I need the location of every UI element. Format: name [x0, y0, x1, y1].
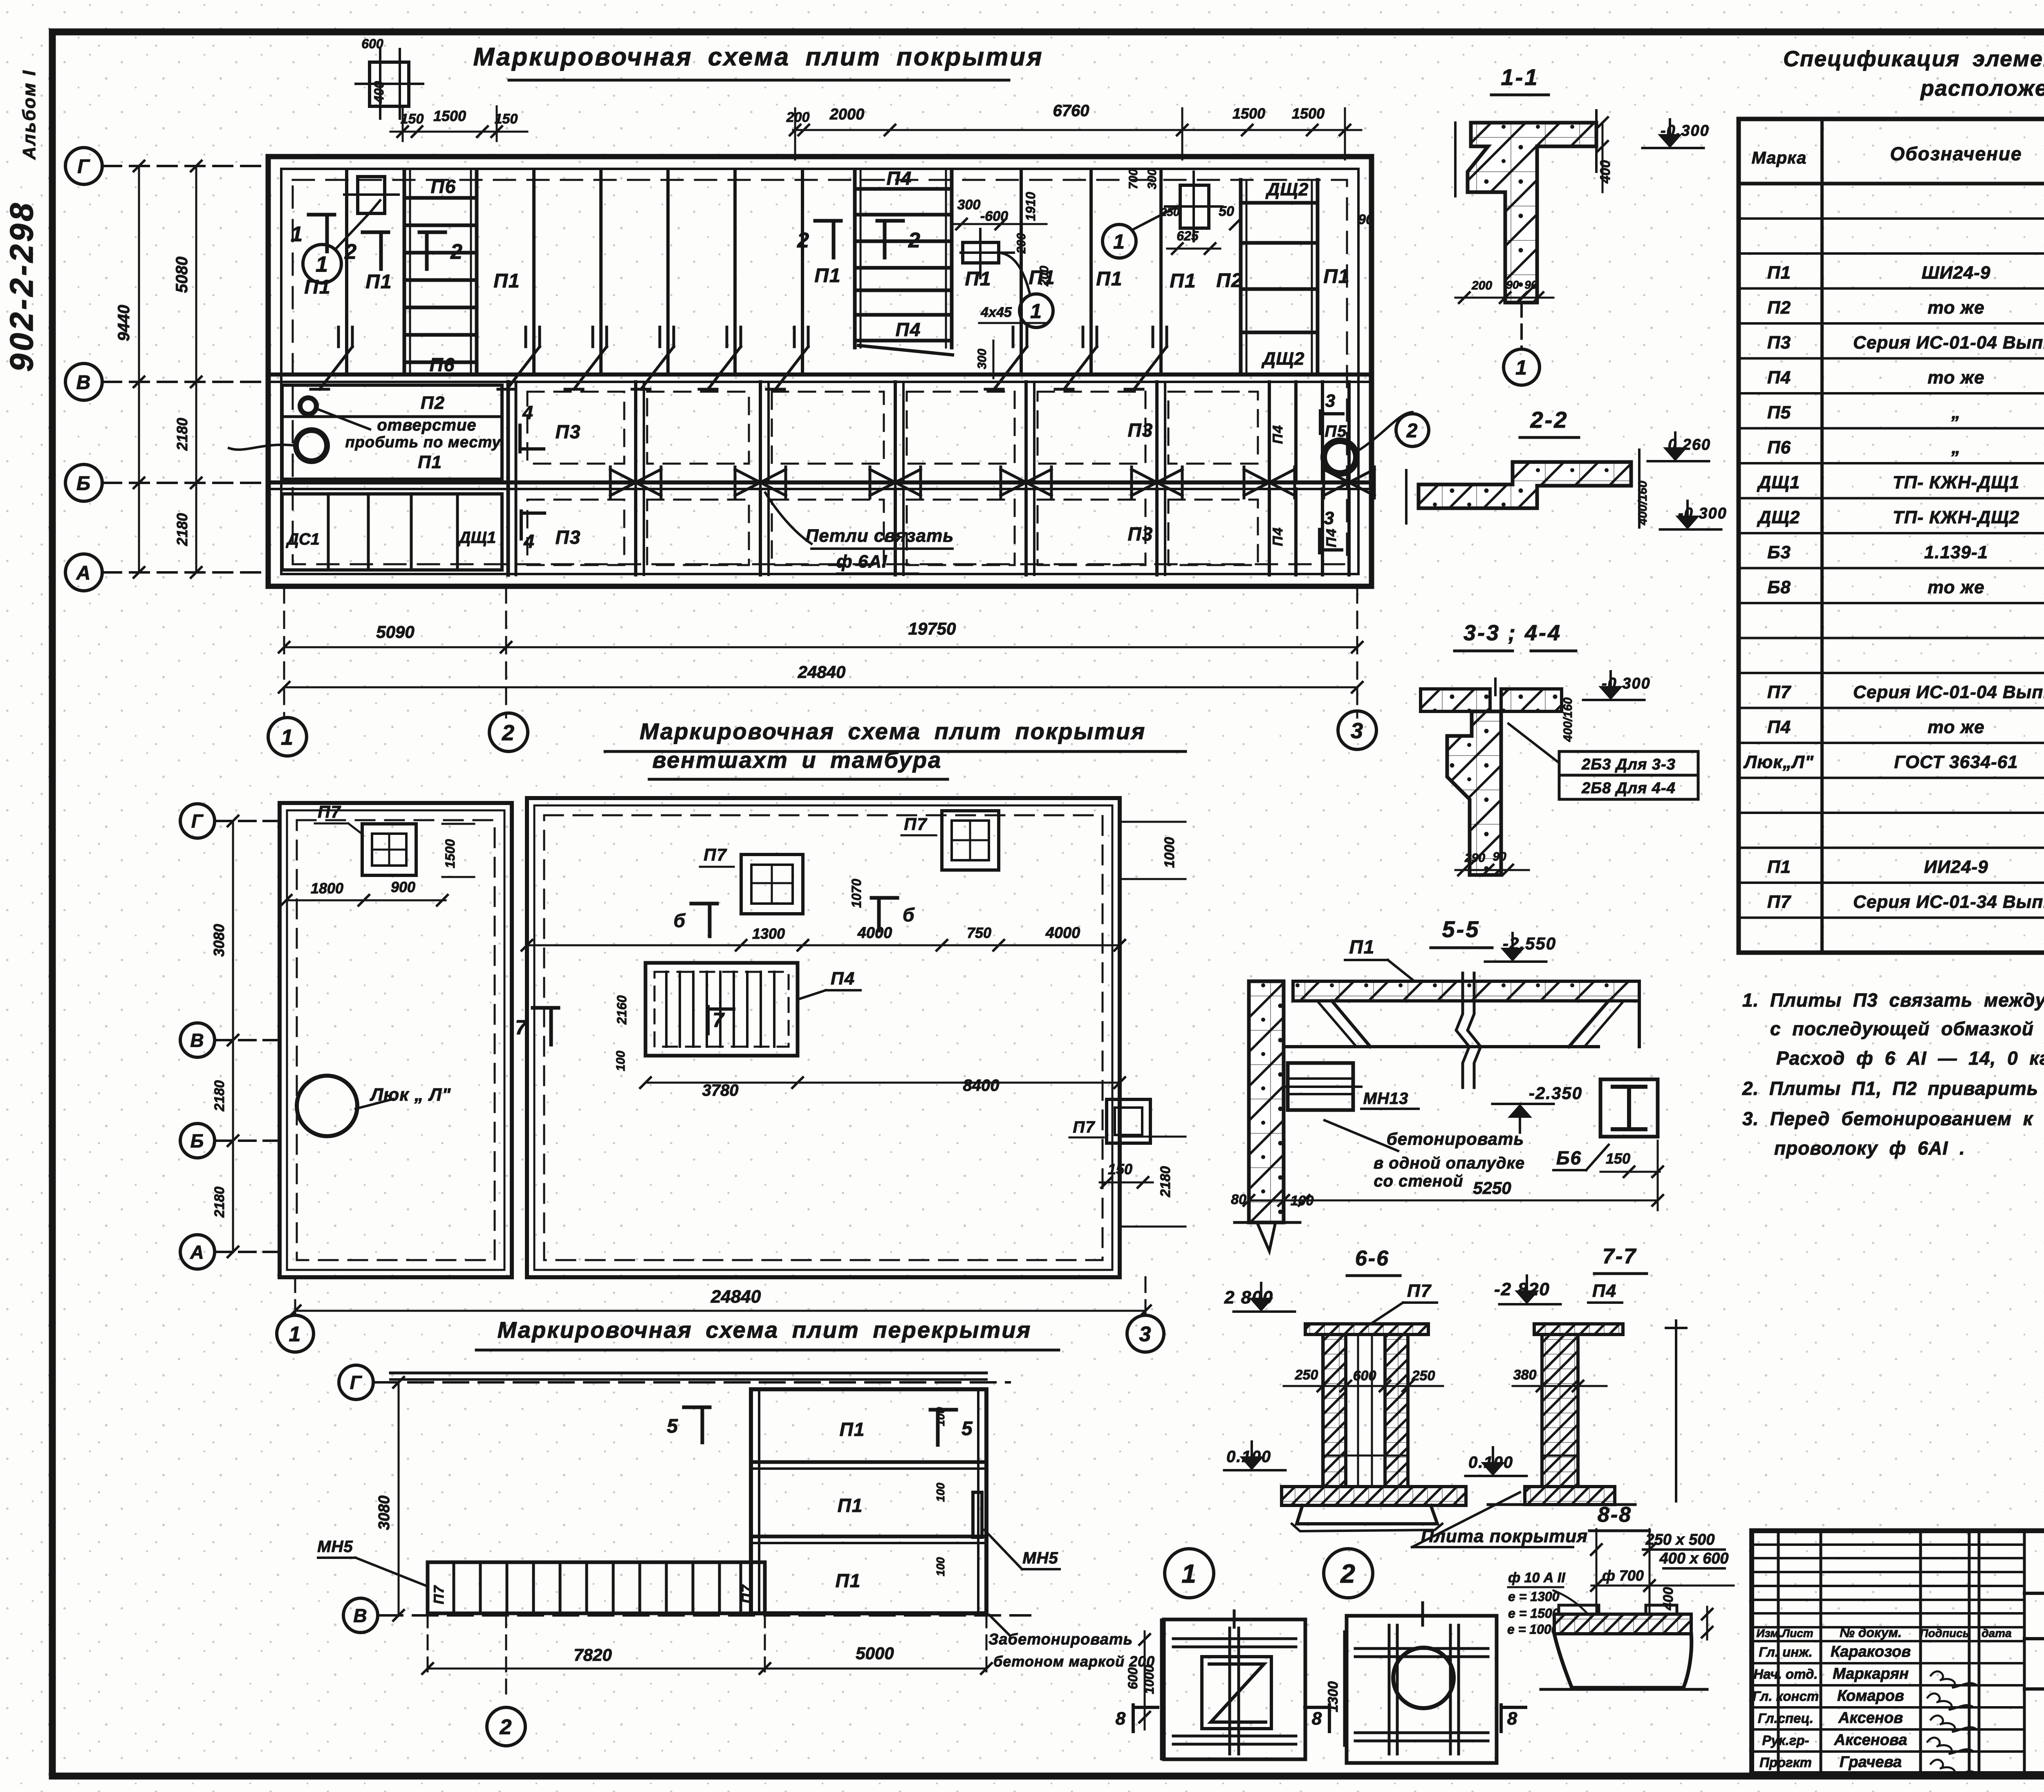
svg-text:1.139-1: 1.139-1: [1924, 543, 1988, 563]
svg-text:П1: П1: [1767, 263, 1791, 283]
svg-text:Гл. инж.: Гл. инж.: [1759, 1644, 1812, 1660]
flag b left: [708, 904, 712, 936]
bubble 2 bottom: [505, 1613, 507, 1701]
svg-text:2. Плиты П1, П2 приварить к: 2. Плиты П1, П2 приварить к закладным де…: [1742, 1078, 2044, 1099]
mid axis bubble 3: [1127, 1315, 1164, 1352]
svg-text:ДЩ2: ДЩ2: [1265, 179, 1309, 200]
title block frame: [1752, 1531, 2044, 1774]
svg-text:В: В: [190, 1030, 204, 1051]
svg-text:3-3 ; 4-4: 3-3 ; 4-4: [1464, 621, 1562, 645]
svg-text:3: 3: [1324, 508, 1335, 528]
svg-text:0.260: 0.260: [1668, 436, 1711, 453]
svg-text:1: 1: [1030, 300, 1042, 323]
svg-text:П6: П6: [431, 176, 457, 197]
svg-text:Комаров: Комаров: [1837, 1687, 1904, 1705]
svg-text:П2: П2: [1216, 270, 1243, 292]
svg-text:с последующей обмазкой цеме: с последующей обмазкой цементным раствор…: [1770, 1018, 2044, 1039]
svg-text:Г: Г: [191, 811, 204, 832]
svg-text:200: 200: [786, 110, 810, 125]
wall line row V: [268, 372, 1372, 377]
svg-text:Альбом I: Альбом I: [19, 70, 39, 160]
svg-text:2: 2: [502, 720, 515, 745]
svg-text:2: 2: [1406, 420, 1419, 442]
svg-text:ф 10 А II: ф 10 А II: [1508, 1570, 1566, 1586]
svg-text:П1: П1: [836, 1570, 861, 1591]
level -0.300: [1643, 147, 1704, 149]
dims 1800 900: [286, 899, 446, 902]
flag b right: [877, 898, 881, 931]
svg-text:250 х 500: 250 х 500: [1645, 1531, 1715, 1548]
svg-text:250: 250: [1160, 206, 1180, 218]
room DS1 bottom left: [282, 494, 502, 570]
detail 1 square: [1164, 1619, 1305, 1759]
svg-text:П1: П1: [304, 276, 331, 298]
svg-text:8400: 8400: [963, 1077, 1000, 1094]
svg-text:24840: 24840: [798, 662, 846, 682]
top band slab joints: [532, 170, 536, 375]
svg-text:250: 250: [1295, 1367, 1318, 1383]
svg-text:ИИ24-9: ИИ24-9: [1924, 857, 1988, 877]
svg-text:100: 100: [1291, 1193, 1314, 1209]
6-6 base: [1282, 1487, 1466, 1505]
P3 dashed insets middle: [527, 392, 624, 464]
svg-text:3: 3: [1325, 391, 1336, 411]
axis G bottom plan: [339, 1365, 373, 1400]
svg-text:П1: П1: [1323, 266, 1350, 287]
svg-text:4000: 4000: [1045, 924, 1080, 942]
svg-text:МН13: МН13: [1363, 1090, 1409, 1108]
svg-text:П7: П7: [1767, 682, 1792, 702]
level 0.100 b: [1466, 1475, 1527, 1477]
svg-text:П1: П1: [814, 265, 841, 287]
svg-text:Петли связать: Петли связать: [806, 526, 954, 546]
svg-text:Марка: Марка: [1752, 148, 1807, 167]
svg-text:П3: П3: [1767, 333, 1791, 353]
svg-text:ДЩ1: ДЩ1: [1757, 473, 1800, 493]
svg-text:2Б3 Для 3-3: 2Б3 Для 3-3: [1581, 756, 1676, 773]
svg-text:0.100: 0.100: [1226, 1448, 1271, 1466]
level 2800: [1234, 1310, 1295, 1313]
svg-text:П1: П1: [965, 268, 991, 290]
svg-text:600: 600: [1125, 1667, 1140, 1689]
anchor box top-left: [370, 62, 409, 106]
bottom dims: [427, 1613, 429, 1676]
detail bubble 2 big: [1324, 1549, 1373, 1598]
svg-text:ТП- КЖН-ДЩ2: ТП- КЖН-ДЩ2: [1893, 507, 2019, 527]
axis row B: [65, 464, 102, 501]
bubble 2 right: [1396, 414, 1429, 446]
svg-text:5-5: 5-5: [1442, 916, 1480, 942]
svg-text:3780: 3780: [702, 1081, 739, 1099]
svg-text:е = 1500: е = 1500: [1508, 1606, 1560, 1621]
level -2820: [1499, 1303, 1561, 1305]
svg-text:П3: П3: [1128, 523, 1154, 545]
svg-text:150: 150: [495, 111, 518, 127]
slab P4 ladder: [853, 170, 857, 348]
section 1-1 body: [1468, 123, 1596, 303]
MN5 plate: [973, 1492, 982, 1537]
svg-text:4000: 4000: [857, 924, 892, 942]
6-6 dims: [1284, 1385, 1443, 1387]
svg-text:150: 150: [1108, 1161, 1132, 1177]
svg-text:П4: П4: [1767, 368, 1791, 388]
svg-text:1: 1: [1113, 230, 1125, 253]
svg-text:В: В: [353, 1605, 368, 1626]
level 0.260: [1648, 460, 1709, 462]
anchor box in band: [358, 177, 385, 213]
svg-text:1-1: 1-1: [1501, 64, 1539, 90]
svg-text:80: 80: [1231, 1192, 1246, 1207]
svg-text:Грачева: Грачева: [1840, 1754, 1902, 1771]
svg-text:Аксенов: Аксенов: [1838, 1709, 1903, 1727]
title block small rows: [1752, 1543, 2024, 1546]
svg-text:300: 300: [975, 349, 989, 369]
svg-text:5250: 5250: [1473, 1178, 1511, 1198]
title block verticals left part: [1777, 1531, 1780, 1774]
svg-text:Б: Б: [191, 1130, 205, 1152]
svg-text:В: В: [76, 372, 92, 393]
svg-text:ф 700: ф 700: [1602, 1567, 1644, 1584]
section 2-2 body: [1419, 462, 1631, 508]
P7 shaft A: [741, 855, 803, 914]
6-6 top slab: [1305, 1324, 1428, 1334]
7-7 column: [1542, 1334, 1578, 1487]
svg-text:4: 4: [523, 531, 535, 552]
MN13 anchor: [1288, 1063, 1353, 1110]
svg-text:1: 1: [1515, 356, 1528, 379]
vertical dim chains left: [138, 166, 140, 572]
room P2/P1 left: [282, 385, 502, 479]
svg-text:со стеной: со стеной: [1374, 1172, 1463, 1190]
svg-text:Серия ИС-01-04 Вып.2: Серия ИС-01-04 Вып.2: [1853, 682, 2044, 702]
svg-text:3: 3: [1139, 1323, 1152, 1346]
svg-text:П7: П7: [1767, 892, 1792, 912]
mid plan axis bubbles: [180, 804, 215, 838]
svg-text:Каракозов: Каракозов: [1831, 1643, 1911, 1660]
svg-text:Маркировочная схема плит пе: Маркировочная схема плит перекрытия: [498, 1317, 1032, 1343]
svg-text:1: 1: [291, 222, 303, 246]
section mark 1: [325, 215, 329, 251]
svg-text:„: „: [1951, 403, 1961, 423]
mid dims line2: [645, 1082, 1120, 1084]
svg-text:1500: 1500: [433, 108, 466, 124]
svg-text:5: 5: [961, 1418, 973, 1440]
svg-text:2180: 2180: [174, 513, 191, 546]
svg-text:250: 250: [1412, 1368, 1435, 1384]
I-beam: [1600, 1079, 1658, 1137]
svg-text:Спецификация элементов к ма: Спецификация элементов к маркировочным с…: [1783, 47, 2044, 71]
title block name rows: [1752, 1640, 2024, 1642]
svg-text:П2: П2: [1767, 298, 1791, 318]
svg-text:П7: П7: [431, 1585, 447, 1604]
svg-text:МН5: МН5: [317, 1538, 353, 1556]
svg-text:380: 380: [1513, 1367, 1537, 1383]
svg-text:100: 100: [934, 1557, 947, 1576]
svg-text:8: 8: [1312, 1709, 1322, 1729]
axis bubble 1 for section: [1520, 303, 1523, 348]
svg-text:5090: 5090: [376, 622, 414, 641]
svg-text:П3: П3: [1128, 419, 1154, 441]
P4 ribbed slab: [645, 963, 798, 1056]
svg-text:50: 50: [1219, 204, 1234, 219]
svg-text:е = 1300: е = 1300: [1508, 1589, 1560, 1604]
svg-text:Рук.гр-: Рук.гр-: [1762, 1733, 1809, 1748]
svg-text:-2 820: -2 820: [1494, 1279, 1550, 1299]
svg-text:400: 400: [372, 81, 386, 103]
hole big: [296, 430, 327, 461]
svg-text:1300: 1300: [1325, 1681, 1341, 1712]
table grid: [1739, 119, 2044, 953]
svg-text:2: 2: [797, 229, 810, 252]
svg-text:е = 1000: е = 1000: [1507, 1622, 1559, 1637]
svg-text:П4: П4: [1270, 424, 1286, 444]
svg-text:300: 300: [1145, 169, 1159, 189]
svg-text:ДЩ2: ДЩ2: [1757, 507, 1800, 527]
svg-text:6760: 6760: [1053, 102, 1089, 120]
svg-text:П1: П1: [840, 1419, 865, 1440]
svg-text:200: 200: [1471, 279, 1492, 292]
slab DSh2 ladder: [1239, 180, 1243, 375]
svg-text:П7: П7: [904, 814, 928, 834]
svg-text:П1: П1: [1170, 270, 1196, 292]
svg-text:Аксенова: Аксенова: [1834, 1731, 1907, 1749]
svg-text:200: 200: [1015, 233, 1028, 254]
svg-text:П1: П1: [1349, 936, 1375, 958]
svg-text:П3: П3: [556, 421, 581, 442]
svg-text:П7: П7: [318, 802, 341, 821]
svg-text:-2.550: -2.550: [1503, 934, 1556, 953]
dim line 24840: [284, 686, 1357, 689]
anchor box right: [1180, 185, 1209, 228]
svg-text:П4: П4: [1324, 528, 1339, 547]
svg-text:2000: 2000: [829, 106, 865, 123]
svg-text:Изм.Лист: Изм.Лист: [1756, 1627, 1813, 1639]
svg-text:П1: П1: [493, 270, 520, 292]
svg-text:П7: П7: [739, 1584, 755, 1603]
level -0.300b: [1660, 528, 1721, 531]
dims above right: [793, 129, 1361, 131]
svg-text:ДЩ2: ДЩ2: [1261, 349, 1305, 369]
hole right: [1324, 441, 1356, 473]
mid plan right block: [527, 798, 1120, 1277]
svg-text:3080: 3080: [376, 1496, 393, 1530]
dim 5250: [1249, 1200, 1658, 1202]
svg-text:19750: 19750: [908, 619, 956, 638]
svg-text:то же: то же: [1927, 368, 1985, 388]
P3 dashed insets bottom: [527, 500, 624, 565]
dim 200 90 90: [1455, 297, 1553, 299]
svg-text:2: 2: [908, 229, 921, 252]
svg-text:700: 700: [1127, 169, 1140, 189]
break lines: [1456, 973, 1469, 1088]
svg-text:Г: Г: [77, 156, 90, 177]
section mark 2b: [425, 232, 429, 269]
axis bubble 1: [268, 718, 307, 756]
svg-text:7: 7: [515, 1016, 527, 1039]
svg-text:3080: 3080: [211, 924, 227, 957]
svg-text:ТП- КЖН-ДЩ1: ТП- КЖН-ДЩ1: [1893, 473, 2019, 493]
svg-text:Б: Б: [76, 473, 91, 494]
svg-text:0.100: 0.100: [1468, 1453, 1513, 1471]
svg-text:П1: П1: [1767, 857, 1791, 877]
svg-text:7820: 7820: [574, 1645, 612, 1664]
svg-text:П2: П2: [421, 393, 445, 413]
svg-text:П3: П3: [556, 527, 581, 548]
svg-text:-0.300: -0.300: [1661, 122, 1710, 139]
axis row A: [65, 554, 102, 591]
svg-text:Маркировочная схема плит по: Маркировочная схема плит покрытия: [640, 718, 1146, 744]
svg-text:24840: 24840: [710, 1287, 761, 1307]
svg-text:А: А: [190, 1242, 204, 1263]
mid dims line1: [527, 944, 1120, 946]
svg-text:8: 8: [1507, 1709, 1518, 1729]
6-6 columns: [1323, 1334, 1346, 1487]
svg-text:-2.350: -2.350: [1529, 1083, 1582, 1103]
svg-text:П7: П7: [1073, 1118, 1095, 1136]
svg-text:пробить по месту: пробить по месту: [345, 434, 501, 451]
svg-text:ф 6АI: ф 6АI: [836, 552, 888, 572]
level 0.100: [1224, 1469, 1286, 1471]
callout boxes: [1508, 724, 1559, 763]
svg-text:902-2-298: 902-2-298: [3, 201, 40, 372]
svg-text:1500: 1500: [1233, 105, 1265, 122]
svg-text:Б6: Б6: [1556, 1147, 1582, 1169]
mid plan bottom dim: [294, 1277, 296, 1314]
svg-text:150: 150: [1606, 1150, 1630, 1167]
detail bubble 1 right: [1103, 224, 1136, 258]
svg-text:б: б: [674, 910, 686, 931]
svg-text:5080: 5080: [173, 257, 191, 293]
svg-text:Люк„Л": Люк„Л": [1743, 752, 1814, 772]
svg-text:7-7: 7-7: [1602, 1245, 1637, 1268]
svg-text:2: 2: [500, 1716, 513, 1739]
svg-text:100: 100: [934, 1482, 947, 1502]
svg-text:90: 90: [1358, 212, 1374, 227]
svg-text:П6: П6: [430, 354, 455, 375]
axis bubble 3: [1338, 711, 1376, 749]
svg-text:600: 600: [361, 36, 383, 51]
detail bubble 1 left: [303, 244, 341, 283]
axis bubble 2: [489, 713, 528, 751]
P3 slab joints middle band: [634, 382, 637, 482]
svg-text:Б8: Б8: [1767, 577, 1791, 597]
svg-text:300: 300: [957, 197, 981, 213]
svg-text:8: 8: [1116, 1709, 1126, 1729]
svg-text:2: 2: [344, 240, 357, 264]
svg-text:Расход ф 6 АI — 14, 0 кг.: Расход ф 6 АI — 14, 0 кг.: [1776, 1047, 2044, 1069]
svg-text:П4: П4: [887, 168, 912, 189]
svg-text:бетонировать: бетонировать: [1387, 1129, 1524, 1148]
svg-text:1300: 1300: [752, 925, 785, 942]
svg-text:П1: П1: [418, 452, 442, 472]
svg-text:900: 900: [391, 879, 415, 895]
svg-text:Маркарян: Маркарян: [1833, 1665, 1909, 1682]
7-7 right edge line: [1675, 1321, 1677, 1501]
svg-text:2: 2: [450, 240, 463, 264]
svg-text:Серия ИС-01-04 Вып.2: Серия ИС-01-04 Вып.2: [1853, 333, 2044, 353]
8-8 body: [1554, 1614, 1691, 1634]
level -2.550: [1485, 960, 1546, 963]
svg-text:то же: то же: [1927, 298, 1985, 318]
svg-text:3. Перед бетонированием к б: 3. Перед бетонированием к балке Б6 прива…: [1742, 1108, 2044, 1129]
wall line row B: [268, 480, 1372, 484]
svg-text:Подпись: Подпись: [1920, 1627, 1970, 1639]
svg-text:отверстие: отверстие: [377, 416, 476, 434]
svg-text:200: 200: [1038, 266, 1051, 287]
svg-text:1070: 1070: [849, 879, 864, 908]
svg-text:2180: 2180: [212, 1080, 227, 1112]
svg-text:А: А: [76, 562, 92, 584]
dim line 5090/19750: [283, 586, 285, 718]
axis row G: [65, 148, 102, 184]
svg-text:4х45: 4х45: [980, 305, 1012, 320]
svg-text:400 х 600: 400 х 600: [1659, 1550, 1728, 1567]
svg-text:400/160: 400/160: [1561, 697, 1575, 742]
svg-text:П5: П5: [1325, 422, 1347, 440]
svg-text:П6: П6: [1767, 437, 1791, 458]
anchor box near P4: [963, 242, 999, 263]
section marks near P4: [832, 221, 836, 258]
svg-text:„: „: [1951, 437, 1961, 458]
svg-text:8-8: 8-8: [1598, 1503, 1632, 1527]
svg-text:100: 100: [614, 1051, 628, 1071]
svg-text:3: 3: [1351, 718, 1364, 743]
svg-text:Прогкт: Прогкт: [1759, 1755, 1812, 1770]
svg-text:5000: 5000: [856, 1644, 894, 1663]
svg-text:2Б8 Для 4-4: 2Б8 Для 4-4: [1581, 780, 1676, 797]
anchor ties: [337, 327, 340, 347]
svg-text:П1: П1: [1096, 268, 1123, 290]
perekrytie block: [751, 1389, 986, 1613]
flags 5: [701, 1407, 704, 1442]
P7 shaft B: [942, 811, 999, 870]
svg-text:4: 4: [522, 402, 534, 423]
section mark 2: [379, 232, 383, 269]
svg-text:Серия ИС-01-34 Вып.2: Серия ИС-01-34 Вып.2: [1853, 892, 2044, 912]
svg-text:400/160: 400/160: [1636, 480, 1650, 525]
flag 7: [549, 1008, 553, 1045]
section 3-3 body: [1421, 689, 1490, 711]
left wall: [1249, 981, 1284, 1222]
svg-text:2180: 2180: [1158, 1166, 1173, 1198]
svg-text:6-6: 6-6: [1355, 1247, 1390, 1270]
slab P6 ladder: [403, 170, 406, 375]
svg-text:1: 1: [1181, 1559, 1197, 1588]
svg-text:в одной опалудке: в одной опалудке: [1374, 1154, 1525, 1172]
svg-text:проволоку ф 6АI .: проволоку ф 6АI .: [1774, 1137, 1965, 1159]
level -2.350: [1493, 1103, 1554, 1105]
detail 2 square: [1347, 1616, 1497, 1763]
svg-text:2: 2: [1340, 1559, 1356, 1588]
svg-text:дата: дата: [1981, 1627, 2011, 1639]
mid plan left block: [280, 803, 512, 1277]
svg-text:2-2: 2-2: [1530, 407, 1569, 433]
svg-text:П4: П4: [1592, 1281, 1617, 1301]
P3 slab joints bottom band: [634, 489, 637, 575]
svg-text:1500: 1500: [1292, 105, 1325, 122]
svg-text:МН5: МН5: [1022, 1549, 1058, 1567]
svg-text:1: 1: [281, 725, 294, 749]
dims above left: [390, 131, 527, 133]
svg-text:Маркировочная схема плит по: Маркировочная схема плит покрытия: [473, 43, 1043, 71]
svg-text:П4: П4: [831, 969, 855, 989]
svg-text:625: 625: [1177, 229, 1199, 243]
svg-text:750: 750: [967, 924, 991, 941]
svg-text:вентшахт и тамбура: вентшахт и тамбура: [652, 747, 942, 773]
roof slab: [1293, 981, 1639, 1001]
svg-text:9440: 9440: [115, 305, 133, 341]
svg-text:1000: 1000: [1162, 837, 1177, 868]
